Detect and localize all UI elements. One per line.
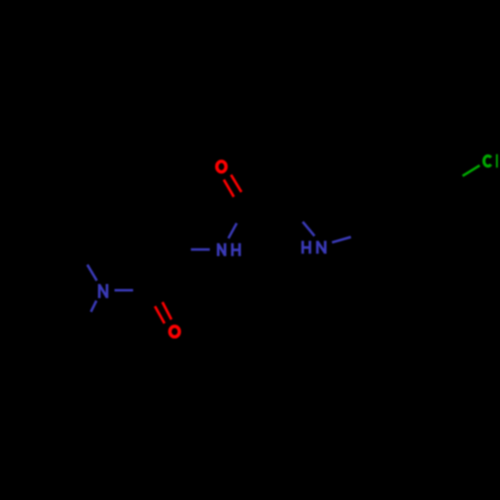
atom N3 label (tertiary amide nitrogen, left) xyxy=(99,284,107,298)
bond N1-C2 (blue half, up-right to carbonyl carbon) xyxy=(228,223,236,238)
bond N3-C7 (blue half, up-left diagonal) xyxy=(87,265,97,281)
bond C2=O1 double bond (red half), line 1 xyxy=(224,180,234,197)
bond C2=O1 double bond (red half), line 2 xyxy=(231,175,241,192)
bond N1-C3 (blue half, horizontal to the left) xyxy=(191,248,210,251)
atom Cl label (chlorine), letter C xyxy=(484,156,491,166)
atom N1 label "NH" (top amide nitrogen), letter N xyxy=(218,243,225,256)
bond Cl-C6 (green half, down-left diagonal) xyxy=(463,165,480,176)
atom N2 label "HN" (indoline nitrogen), letter H xyxy=(303,241,310,254)
atom Cl label, letter l xyxy=(496,154,498,167)
bond C9=O2 double bond (red half), line 1 xyxy=(155,306,165,323)
bond N3-C9 (blue half, horizontal to the right toward carbonyl) xyxy=(115,289,134,292)
bond C9=O2 double bond (red half), line 2 xyxy=(162,302,171,319)
atom N1 label "NH", letter H xyxy=(232,243,239,256)
bond N3-C8 (blue half, down-left diagonal) xyxy=(91,301,97,312)
atom O2 label (bottom amide carbonyl oxygen) xyxy=(170,326,180,337)
atom O1 label (top amide carbonyl oxygen) xyxy=(217,161,226,172)
atom N2 label "HN", letter N xyxy=(317,241,325,254)
bond N2-C4 (blue half, up-left diagonal) xyxy=(303,222,315,236)
bond N2-C5 (blue half, to the right) xyxy=(332,237,351,242)
